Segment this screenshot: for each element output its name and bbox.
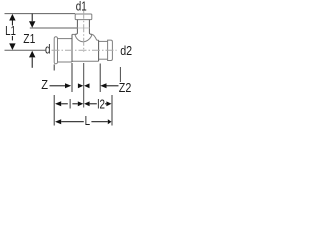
svg-text:d: d <box>45 44 50 57</box>
branch centerline <box>83 11 85 52</box>
left step line <box>71 34 73 62</box>
body top right <box>97 39 99 41</box>
left-end extension line lower <box>53 95 55 126</box>
svg-text:d1: d1 <box>76 0 87 13</box>
svg-text:l2: l2 <box>97 98 105 111</box>
svg-text:d2: d2 <box>120 44 132 58</box>
left-end extension stub <box>53 64 55 70</box>
short vertical under d2 <box>119 67 121 82</box>
svg-text:Z: Z <box>41 77 48 92</box>
svg-text:L1: L1 <box>5 25 16 38</box>
svg-text:l: l <box>69 98 71 111</box>
dimension L arrows <box>55 119 112 124</box>
dimension L1 arrows <box>9 14 15 50</box>
dimension Z1 arrows <box>29 14 35 68</box>
right step line <box>98 40 100 61</box>
branch collar <box>75 14 92 20</box>
flare to body right <box>92 34 97 40</box>
left step extension line <box>71 63 73 92</box>
right step extension line <box>99 64 101 93</box>
tee fitting outline <box>54 14 112 64</box>
body bottom <box>72 60 99 62</box>
right-end extension line <box>111 95 113 126</box>
branch axis extension line <box>83 63 85 108</box>
svg-text:L: L <box>85 115 90 128</box>
saddle arc <box>75 34 92 41</box>
branch insertion extension line <box>30 27 78 29</box>
left socket tube top <box>58 38 73 40</box>
flare shelf left of branch <box>72 33 75 35</box>
branch insertion depth faint line <box>77 27 89 29</box>
svg-text:Z1: Z1 <box>23 33 35 46</box>
right socket bead <box>108 40 113 60</box>
right socket tube bottom <box>99 58 108 60</box>
dimension l arrows <box>55 101 112 106</box>
branch flare left curve <box>75 20 78 35</box>
left socket tube bottom <box>58 61 73 63</box>
dimension Z arrows <box>50 83 119 88</box>
branch flare right curve <box>89 20 92 35</box>
svg-text:Z2: Z2 <box>119 81 131 95</box>
axis extension line left <box>5 49 46 51</box>
top extension line (branch top plane) <box>5 13 76 15</box>
left socket bead <box>54 37 57 64</box>
right socket tube top <box>99 40 108 42</box>
run centerline <box>52 49 117 51</box>
